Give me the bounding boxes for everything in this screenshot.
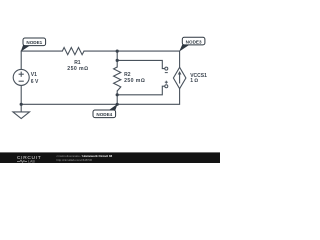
junction dot at R2 bottom [116,103,119,106]
wire VCCS control bottom [117,86,165,95]
svg-text:1 Ω: 1 Ω [190,78,198,84]
footer CircuitLab logo [17,155,41,163]
footer bar [0,152,220,163]
wire R2 branch top lead [116,51,118,67]
wire top rail left (NODE1 corner to R1) [21,51,62,69]
resistor R2 [114,67,121,91]
svg-text:250 mΩ: 250 mΩ [124,78,145,84]
wire top rail middle (R1 to R2 junction) [84,50,117,52]
svg-text:http://circuitlab.com/c648736: http://circuitlab.com/c648736 [57,158,93,162]
ground [13,112,30,119]
svg-text:250 mΩ: 250 mΩ [67,66,88,72]
voltage source V1 [13,69,29,85]
VCCS1 control terminal plus (pin) [165,85,168,88]
wire VCCS control top [117,60,165,68]
wire bottom rail [21,89,179,105]
node NODE1 flag [21,38,46,52]
junction dot at control tap top [116,59,119,62]
VCCS1 plus sign [165,81,168,84]
VCCS1 control terminal minus (pin) [165,67,168,70]
svg-text:NODE1: NODE1 [26,40,42,45]
node NODE3 flag [179,37,205,51]
svg-text:6 V: 6 V [31,79,39,85]
resistor R1 [62,48,84,55]
dependent source VCCS1 diamond [173,67,186,88]
VCCS1 minus sign [165,72,168,74]
wire top rail right (R2 junction to NODE3 corner) [117,51,179,67]
node NODE4 flag [93,104,118,118]
wire left branch V1 bottom to ground junction [20,86,22,112]
svg-text:NODE3: NODE3 [186,40,202,45]
wire R2 branch bottom lead [116,91,118,104]
svg-text:V1: V1 [31,72,37,78]
junction dot at ground [20,103,23,106]
svg-text:LAB: LAB [28,159,36,163]
junction dot at R2 top [116,50,119,53]
svg-text:NODE4: NODE4 [96,112,112,117]
junction dot at control tap bottom [116,93,119,96]
